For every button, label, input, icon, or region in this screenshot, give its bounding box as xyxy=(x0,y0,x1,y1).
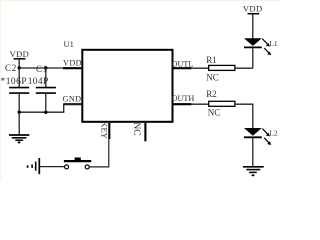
node junction C1 bottom xyxy=(44,111,47,114)
svg-text:L2: L2 xyxy=(269,129,278,138)
capacitor C2 xyxy=(1,63,30,112)
svg-text:R1: R1 xyxy=(206,55,217,65)
svg-text:VDD: VDD xyxy=(63,58,82,67)
svg-text:NC: NC xyxy=(206,72,219,82)
pin OUTL stub xyxy=(174,67,192,69)
svg-text:OUTH: OUTH xyxy=(172,94,195,103)
power VDD left xyxy=(10,49,30,68)
capacitor C1 xyxy=(28,64,56,112)
svg-text:R2: R2 xyxy=(206,89,217,99)
svg-text:NC: NC xyxy=(208,108,221,118)
IC U1 xyxy=(82,50,172,122)
svg-text:GND: GND xyxy=(63,94,82,103)
wire R2 to LED L2 xyxy=(235,104,253,128)
svg-text:L1: L1 xyxy=(269,39,278,48)
svg-text:KEY: KEY xyxy=(100,121,110,138)
wire switch to KEY pin xyxy=(89,139,108,167)
wire ground to switch xyxy=(39,166,64,168)
svg-text:VDD: VDD xyxy=(243,4,263,14)
pin KEY stub xyxy=(108,123,110,139)
wire VDD rail to U1 xyxy=(19,67,63,69)
pin VDD stub xyxy=(63,67,81,69)
power VDD right xyxy=(243,4,263,39)
node junction C2 top xyxy=(18,66,21,69)
wire R1 to LED L1 xyxy=(235,67,253,69)
wire OUTH to R2 xyxy=(191,103,209,105)
wire OUTL to R1 xyxy=(191,67,209,69)
pin NC stub xyxy=(144,123,146,142)
svg-text:C2: C2 xyxy=(5,63,17,73)
LED L1 xyxy=(244,38,278,68)
ground (earth) below C2 xyxy=(9,112,29,143)
LED L2 xyxy=(244,128,278,166)
svg-text:OUTL: OUTL xyxy=(172,59,194,68)
push-button switch xyxy=(64,158,91,169)
ground (earth) below L2 xyxy=(243,167,264,176)
resistor R2 xyxy=(206,89,235,118)
wire GND rail xyxy=(19,104,81,112)
ground (earth) left of switch xyxy=(27,158,40,174)
svg-text:VDD: VDD xyxy=(10,49,30,59)
node junction C1 top xyxy=(44,66,47,69)
svg-text:U1: U1 xyxy=(64,39,74,49)
node junction C2 bottom xyxy=(18,111,21,114)
svg-text:*106P: *106P xyxy=(1,77,28,87)
pin OUTH stub xyxy=(174,103,192,105)
resistor R1 xyxy=(206,55,235,82)
svg-text:NC: NC xyxy=(131,122,141,135)
pin GND stub xyxy=(64,103,82,105)
